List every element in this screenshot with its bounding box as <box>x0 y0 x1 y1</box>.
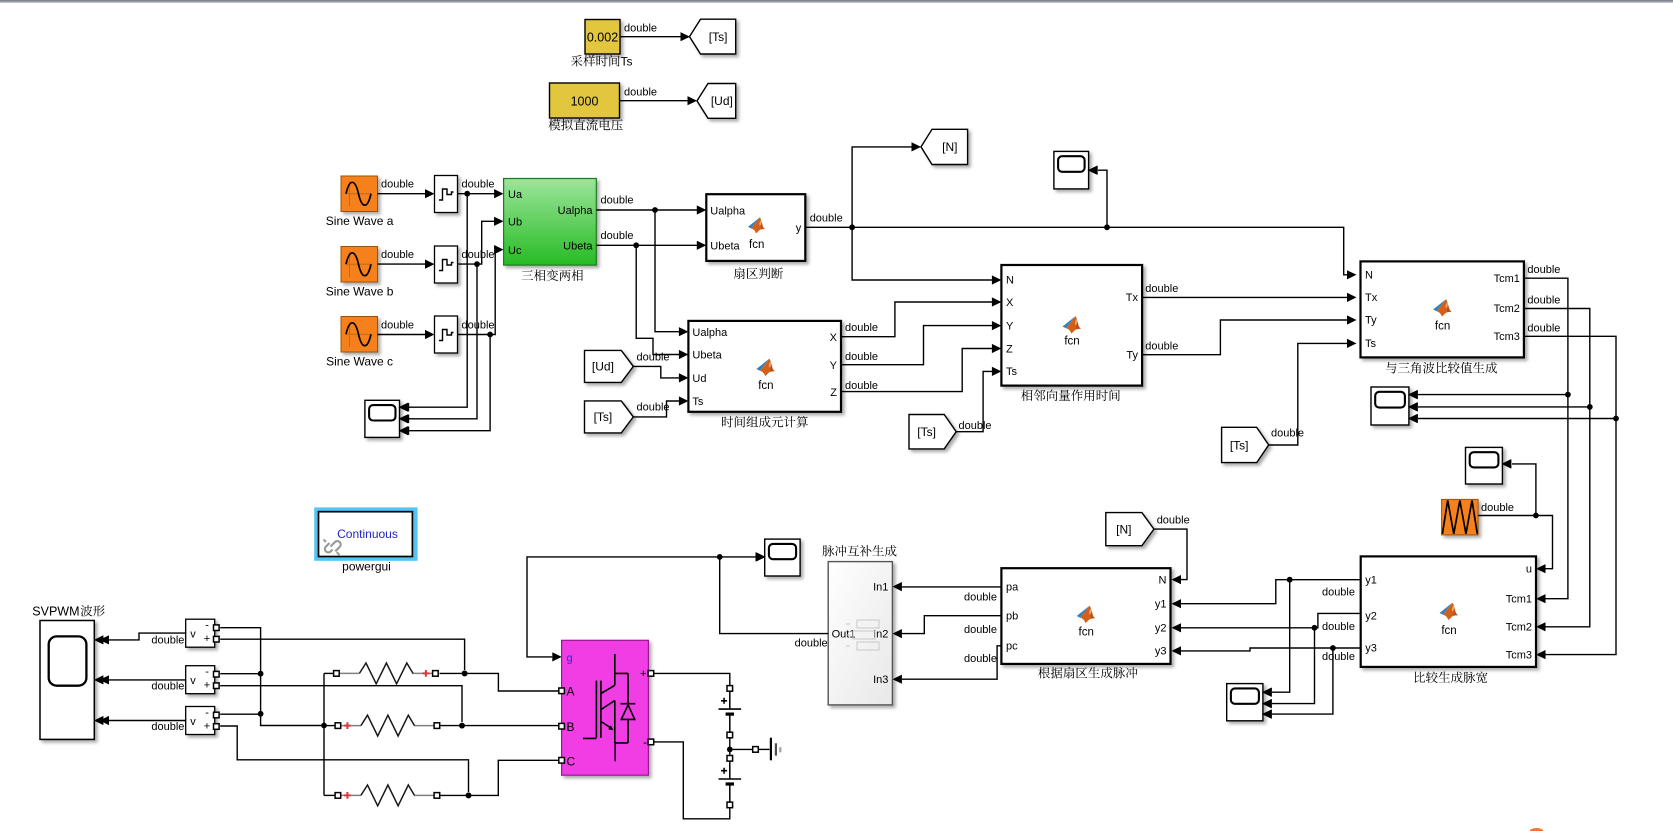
svg-text:pb: pb <box>1006 611 1018 623</box>
sine wave source block c <box>341 317 378 353</box>
IGBT and diode icon inside bridge <box>583 654 635 761</box>
junction dot phase C node <box>466 793 472 799</box>
wire pa to In1 <box>902 586 1002 588</box>
svg-text:[Ts]: [Ts] <box>1230 438 1249 452</box>
svg-text:y2: y2 <box>1155 623 1167 635</box>
scope for y pulses <box>1227 684 1263 721</box>
svg-text:+: + <box>204 633 210 645</box>
svg-text:Tx: Tx <box>1365 292 1378 304</box>
svg-text:double: double <box>637 352 670 364</box>
wire R1 right to bridge A <box>440 673 559 691</box>
MATLAB function block 时间组成元计算 U2 <box>688 321 841 412</box>
sine wave source block a <box>341 176 378 212</box>
svg-text:double: double <box>462 320 495 332</box>
constant block 0.002 (采样时间Ts) <box>585 20 620 55</box>
wire pb to In2 <box>902 616 1002 634</box>
wire v1 plus to phase A node <box>220 639 464 670</box>
svg-text:y3: y3 <box>1155 646 1167 658</box>
svg-text:Ty: Ty <box>1126 350 1138 362</box>
wire pc to In3 <box>902 646 1002 679</box>
repeating sequence triangle wave source <box>1442 499 1479 535</box>
svg-text:double: double <box>601 195 634 207</box>
label 根据扇区生成脉冲 <box>1038 667 1137 679</box>
svg-text:SVPWM: SVPWM <box>32 605 79 619</box>
svg-text:Uc: Uc <box>508 245 522 257</box>
wire ZOH a to Ua with branch to scope <box>458 193 495 195</box>
svg-text:Sine Wave b: Sine Wave b <box>326 285 394 299</box>
svg-text:Out1: Out1 <box>832 629 856 641</box>
svg-text:N: N <box>1365 270 1373 282</box>
subsystem 三相变两相 (abc to alpha-beta) <box>504 179 597 266</box>
svg-text:0.002: 0.002 <box>587 31 618 45</box>
wire R2 right to bridge B <box>440 725 559 727</box>
wire Tcm2 to 比较生成脉宽 Tcm2 with scope branch <box>1524 309 1590 627</box>
svg-text:double: double <box>1145 341 1178 353</box>
svg-text:double: double <box>845 322 878 334</box>
wire 0.002 to [Ts] goto <box>620 36 681 38</box>
svg-text:Z: Z <box>830 387 837 399</box>
wire ZOH b to Ub with branch to scope <box>458 221 495 264</box>
svg-text:double: double <box>151 721 184 733</box>
svg-text:y1: y1 <box>1155 599 1167 611</box>
wire y2 to 根据扇区生成脉冲 with scope branch <box>1181 613 1361 627</box>
wire Sine Wave c to zero-order hold c <box>378 334 426 336</box>
svg-text:Ts: Ts <box>1365 338 1377 350</box>
voltage measurement v3 <box>186 707 215 735</box>
svg-text:Ty: Ty <box>1365 315 1377 327</box>
svg-text:y2: y2 <box>1365 611 1377 623</box>
svg-text:B: B <box>567 720 575 734</box>
svg-text:A: A <box>567 685 575 699</box>
svg-text:double: double <box>381 179 414 191</box>
wire 1000 to [Ud] goto <box>620 100 689 102</box>
scope for triangle wave <box>1466 447 1503 484</box>
wire y output of 扇区判断 to [N] goto, scope, 相邻向量作用时间 N, 与三角波比较值生成 N <box>805 227 1347 274</box>
wire v2 plus to phase B node <box>220 686 462 722</box>
goto tag [Ud] <box>697 84 736 119</box>
MATLAB function block 与三角波比较值生成 U4 <box>1361 261 1524 357</box>
svg-text:Continuous: Continuous <box>337 527 398 541</box>
label 模拟直流电压 <box>549 119 623 131</box>
svg-text:y: y <box>796 223 802 235</box>
svg-text:double: double <box>637 402 670 414</box>
svg-text:double: double <box>381 320 414 332</box>
MATLAB function block 根据扇区生成脉冲 U6 (mirrored) <box>1001 568 1170 664</box>
svg-text:double: double <box>624 23 657 35</box>
goto tag [N] <box>921 129 968 164</box>
svg-text:+: + <box>640 668 646 680</box>
wire between DC sources with ground tap <box>729 738 731 756</box>
svg-text:fcn: fcn <box>1441 625 1456 637</box>
matlab watermark bottom right <box>1530 828 1544 831</box>
svg-text:-: - <box>643 735 647 749</box>
label 比较生成脉宽 <box>1415 672 1488 684</box>
wire [Ud] to Ud input <box>633 366 679 378</box>
svg-text:double: double <box>964 592 997 604</box>
zero-order hold a <box>435 176 458 213</box>
svg-text:X: X <box>830 332 838 344</box>
svg-text:double: double <box>624 87 657 99</box>
svg-text:double: double <box>1322 651 1355 663</box>
svg-text:double: double <box>601 230 634 242</box>
wire Out1 to scope and to bridge gate g <box>720 557 829 634</box>
bridge port squares <box>559 688 565 694</box>
powergui block (selected) <box>314 507 417 560</box>
top window bar <box>0 0 1673 2</box>
label 扇区判断 <box>734 267 783 279</box>
svg-text:-: - <box>205 666 209 678</box>
svg-text:double: double <box>1271 428 1304 440</box>
svg-text:v: v <box>190 716 196 728</box>
from tag [Ts] feeding 相邻向量作用时间 <box>909 415 956 449</box>
DC voltage source 1 <box>729 691 731 709</box>
wire [Ts] to Ts input of 相邻向量作用时间 <box>956 371 992 431</box>
svg-text:double: double <box>1145 283 1178 295</box>
constant block 1000 (模拟直流电压) <box>550 83 620 118</box>
svg-text:v: v <box>190 629 196 641</box>
scope on gate pulse <box>765 539 800 576</box>
svg-text:double: double <box>845 380 878 392</box>
svg-text:pa: pa <box>1006 582 1019 594</box>
svg-text:double: double <box>964 624 997 636</box>
svg-text:N: N <box>1159 575 1167 587</box>
svg-text:fcn: fcn <box>1079 627 1094 639</box>
svg-text:Y: Y <box>1006 321 1014 333</box>
wire X output to X input <box>841 302 992 337</box>
goto tag [Ts] top <box>690 19 736 54</box>
wire v3 plus to phase C node <box>220 726 468 792</box>
wire v2 output to scope <box>109 679 186 681</box>
voltage measurement v1 <box>186 619 215 647</box>
svg-text:double: double <box>964 653 997 665</box>
svg-text:y3: y3 <box>1365 643 1377 655</box>
label 时间组成元计算 <box>722 416 808 428</box>
from tag [N] <box>1106 513 1154 546</box>
wire [Ts] to Ts input of 与三角波比较值生成 <box>1269 343 1347 445</box>
wire Sine Wave b to zero-order hold b <box>378 263 426 265</box>
svg-text:Ualpha: Ualpha <box>710 206 746 218</box>
MATLAB function block 扇区判断 U1 <box>706 194 805 261</box>
svg-text:double: double <box>845 351 878 363</box>
svg-text:C: C <box>567 755 576 769</box>
MATLAB function block 比较生成脉宽 U5 (mirrored) <box>1361 556 1536 667</box>
wire [Ts] to Ts input <box>633 401 679 417</box>
wire Y output to Y input <box>841 326 992 365</box>
svg-text:double: double <box>1157 515 1190 527</box>
wire v1 output to scope <box>109 633 186 640</box>
wire triangle source to u input with scope branch <box>1478 516 1552 569</box>
svg-text:fcn: fcn <box>749 239 764 251</box>
label 相邻向量作用时间 <box>1021 389 1120 401</box>
svg-text:X: X <box>1006 297 1014 309</box>
svg-text:[N]: [N] <box>1116 522 1131 536</box>
svg-text:Tcm1: Tcm1 <box>1494 273 1520 285</box>
svg-text:g: g <box>567 653 573 665</box>
wire Ubeta to 扇区判断 and 时间组成元计算 <box>596 244 697 246</box>
wire bridge - to DC source 2 bottom <box>654 742 730 819</box>
svg-text:double: double <box>959 420 992 432</box>
subsystem 脉冲互补生成 (mirrored) <box>828 562 892 705</box>
svg-text:double: double <box>1481 502 1514 514</box>
svg-text:Tcm3: Tcm3 <box>1506 650 1532 662</box>
wire ZOH c to Uc with branch to scope <box>458 250 496 335</box>
resistor branch R3 phase C <box>341 794 361 796</box>
label 与三角波比较值生成 <box>1386 362 1497 374</box>
svg-text:u: u <box>1526 564 1532 576</box>
svg-text:1000: 1000 <box>571 95 599 109</box>
svg-text:fcn: fcn <box>1064 336 1079 348</box>
svg-text:double: double <box>151 634 184 646</box>
svg-text:double: double <box>1322 621 1355 633</box>
voltage measurement v2 <box>186 666 215 694</box>
from tag [Ud] <box>585 350 634 382</box>
svg-text:powergui: powergui <box>342 560 391 574</box>
svg-text:[Ts]: [Ts] <box>594 410 613 424</box>
ground symbol <box>770 738 772 761</box>
svg-text:-: - <box>205 707 209 719</box>
svg-text:In3: In3 <box>873 674 888 686</box>
junction dot phase A node <box>462 671 468 677</box>
svg-text:double: double <box>1527 294 1560 306</box>
junction dot phase B node <box>459 723 465 729</box>
svg-text:Y: Y <box>830 360 838 372</box>
svg-text:Sine Wave c: Sine Wave c <box>326 355 393 369</box>
wire R3 right to bridge C <box>440 760 559 795</box>
svg-text:+: + <box>204 721 210 733</box>
svg-text:double: double <box>462 179 495 191</box>
svg-text:Ualpha: Ualpha <box>558 205 594 217</box>
svg-text:double: double <box>1322 586 1355 598</box>
svg-text:Tcm2: Tcm2 <box>1494 303 1520 315</box>
svg-text:fcn: fcn <box>758 380 773 392</box>
wire Tx to 与三角波比较值生成 <box>1142 296 1347 298</box>
svg-text:Ts: Ts <box>621 55 633 69</box>
wire to ground <box>733 748 753 750</box>
universal bridge IGBT block <box>562 640 649 775</box>
svg-text:y1: y1 <box>1365 575 1377 587</box>
from tag [Ts] feeding 时间组成元计算 <box>585 401 634 433</box>
svg-text:[Ts]: [Ts] <box>709 30 728 44</box>
from tag [Ts] feeding 与三角波比较值生成 <box>1222 427 1269 462</box>
wire Ty to 与三角波比较值生成 <box>1142 320 1347 355</box>
scope for Tcm signals <box>1371 387 1409 425</box>
svg-text:Ud: Ud <box>692 373 706 385</box>
label 脉冲互补生成 <box>822 545 896 557</box>
svg-text:-: - <box>205 620 209 632</box>
wire [N] to N input of 根据扇区生成脉冲 <box>1154 529 1187 580</box>
svg-text:In1: In1 <box>873 582 888 594</box>
svg-text:double: double <box>462 249 495 261</box>
svg-text:Ubeta: Ubeta <box>563 241 593 253</box>
resistor branch R1 phase A <box>339 672 359 674</box>
svg-text:Tcm2: Tcm2 <box>1506 622 1532 634</box>
wire bridge + to DC source 1 <box>654 673 730 685</box>
svg-text:Tcm1: Tcm1 <box>1506 594 1532 606</box>
svg-text:double: double <box>810 213 843 225</box>
svg-text:double: double <box>795 638 828 650</box>
resistor branch R2 phase B <box>341 725 361 727</box>
svg-text:[Ud]: [Ud] <box>592 360 614 374</box>
svg-text:Tx: Tx <box>1126 292 1139 304</box>
svg-text:Ubeta: Ubeta <box>710 241 740 253</box>
svg-text:[N]: [N] <box>942 140 957 154</box>
wire Tcm3 to 比较生成脉宽 Tcm3 with scope branch <box>1524 336 1616 654</box>
sine wave source block b <box>341 247 378 283</box>
svg-text:Ualpha: Ualpha <box>692 327 728 339</box>
wire Sine Wave a to zero-order hold a <box>378 193 426 195</box>
svg-text:v: v <box>190 675 196 687</box>
wire Z output to Z input <box>841 349 992 392</box>
scope SVPWM波形 <box>40 621 94 740</box>
wire Ualpha to 扇区判断 and 时间组成元计算 <box>596 209 697 211</box>
zero-order hold c <box>435 316 458 353</box>
svg-text:Ua: Ua <box>508 189 523 201</box>
svg-text:double: double <box>1527 264 1560 276</box>
svg-text:Sine Wave a: Sine Wave a <box>326 214 394 228</box>
svg-text:pc: pc <box>1006 641 1018 653</box>
svg-text:Tcm3: Tcm3 <box>1494 331 1520 343</box>
wire v3 output to scope <box>109 720 186 722</box>
svg-text:double: double <box>1527 323 1560 335</box>
wire y1 to 根据扇区生成脉冲 with scope branch <box>1181 580 1361 604</box>
svg-text:Ub: Ub <box>508 217 522 229</box>
svg-text:Ubeta: Ubeta <box>692 350 722 362</box>
svg-text:Z: Z <box>1006 344 1013 356</box>
scope on sector signal <box>1054 151 1089 189</box>
svg-text:N: N <box>1006 275 1014 287</box>
svg-text:Ts: Ts <box>1006 366 1018 378</box>
DC voltage source 2 <box>729 761 731 779</box>
MATLAB function block 相邻向量作用时间 U3 <box>1001 265 1142 386</box>
label 采样时间Ts <box>571 55 620 67</box>
svg-text:[Ts]: [Ts] <box>917 425 936 439</box>
svg-text:double: double <box>151 680 184 692</box>
load neutral bus connecting resistor left ends <box>323 673 325 795</box>
svg-text:[Ud]: [Ud] <box>711 94 733 108</box>
svg-text:double: double <box>381 249 414 261</box>
scope for three sine inputs <box>365 400 400 437</box>
label 三相变两相 <box>522 269 583 281</box>
svg-text:Ts: Ts <box>692 396 704 408</box>
wire y3 to 根据扇区生成脉冲 with scope branch <box>1181 648 1361 651</box>
svg-text:fcn: fcn <box>1435 321 1450 333</box>
wire Tcm1 to 比较生成脉宽 Tcm1 with scope branch <box>1524 278 1568 599</box>
wire v minus terminals common to load neutral <box>220 628 321 726</box>
svg-text:+: + <box>204 680 210 692</box>
zero-order hold b <box>435 246 458 283</box>
